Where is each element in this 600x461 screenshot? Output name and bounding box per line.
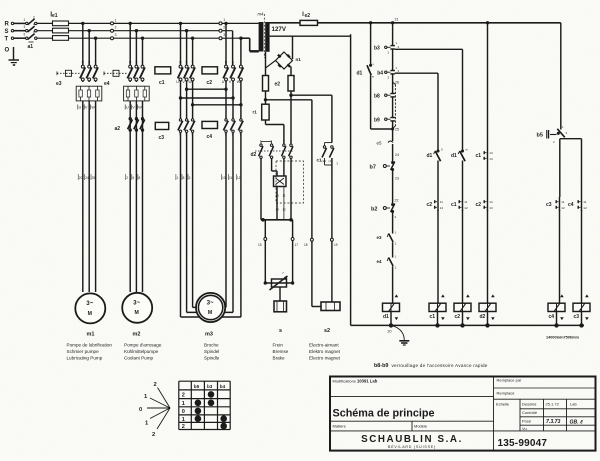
svg-text:750t/min: 750t/min <box>564 336 580 340</box>
svg-text:11: 11 <box>229 176 233 180</box>
svg-text:Frein: Frein <box>273 343 284 348</box>
svg-text:13: 13 <box>489 206 493 210</box>
svg-text:25: 25 <box>395 128 399 132</box>
svg-text:11: 11 <box>440 200 443 204</box>
svg-text:c3: c3 <box>574 314 580 320</box>
svg-text:Lubricating Pump: Lubricating Pump <box>67 356 103 361</box>
svg-text:1: 1 <box>182 401 185 407</box>
svg-text:a1: a1 <box>28 44 34 50</box>
svg-text:15: 15 <box>258 243 262 247</box>
svg-text:10391 Lab: 10391 Lab <box>357 379 378 384</box>
svg-text:Dessiné: Dessiné <box>522 402 537 407</box>
svg-text:14: 14 <box>489 157 493 161</box>
svg-text:5: 5 <box>132 176 134 180</box>
svg-text:Pompe d'arrosage: Pompe d'arrosage <box>124 343 162 348</box>
svg-text:Remplacé: Remplacé <box>497 391 516 396</box>
svg-text:22: 22 <box>395 199 399 203</box>
svg-text:d1: d1 <box>451 153 457 159</box>
svg-text:Schmier pumpe: Schmier pumpe <box>67 349 100 354</box>
svg-text:0: 0 <box>182 409 185 415</box>
svg-text:Spindle: Spindle <box>204 356 220 361</box>
svg-text:d2: d2 <box>480 314 486 320</box>
svg-text:c2: c2 <box>427 202 433 208</box>
svg-text:m2: m2 <box>133 332 141 338</box>
svg-text:S: S <box>5 29 9 35</box>
svg-text:0: 0 <box>139 407 142 413</box>
svg-text:Bremse: Bremse <box>273 349 289 354</box>
svg-text:25: 25 <box>92 176 96 180</box>
svg-text:Modifications: Modifications <box>333 379 356 384</box>
svg-text:23: 23 <box>395 177 399 181</box>
svg-text:T: T <box>141 60 143 64</box>
svg-text:2: 2 <box>115 26 117 30</box>
svg-text:e3: e3 <box>56 81 62 87</box>
svg-text:2: 2 <box>182 392 185 398</box>
svg-text:d1: d1 <box>357 71 363 77</box>
svg-text:R: R <box>5 22 10 28</box>
svg-text:19: 19 <box>334 243 338 247</box>
svg-text:Elektro magnet: Elektro magnet <box>309 349 341 354</box>
svg-text:Coolant Pump: Coolant Pump <box>124 356 154 361</box>
svg-text:Posé: Posé <box>522 418 532 423</box>
svg-text:b2: b2 <box>371 207 377 213</box>
svg-text:BÉVILARD (SUISSE): BÉVILARD (SUISSE) <box>388 444 436 449</box>
svg-text:c2: c2 <box>207 80 213 86</box>
svg-text:2: 2 <box>33 15 35 19</box>
svg-text:Pompe de lubrification: Pompe de lubrification <box>67 343 113 348</box>
svg-text:3: 3 <box>223 33 225 37</box>
svg-text:c3: c3 <box>546 202 552 208</box>
svg-text:s2: s2 <box>324 328 330 334</box>
svg-text:7.3.73: 7.3.73 <box>546 419 561 425</box>
svg-text:verrouillage de l'accessoire A: verrouillage de l'accessoire Avance rapi… <box>392 363 488 368</box>
svg-text:Electro-aimant: Electro-aimant <box>309 343 339 348</box>
svg-text:14: 14 <box>276 208 280 212</box>
svg-text:12: 12 <box>283 208 287 212</box>
svg-text:c1: c1 <box>476 153 482 159</box>
svg-text:b9: b9 <box>374 117 380 123</box>
svg-text:(19: (19 <box>322 159 327 163</box>
svg-text:12: 12 <box>561 206 565 210</box>
svg-text:13: 13 <box>276 194 280 198</box>
svg-text:T: T <box>191 60 193 64</box>
svg-text:20: 20 <box>79 176 83 180</box>
svg-text:21: 21 <box>395 18 399 22</box>
svg-text:e4: e4 <box>104 81 110 87</box>
svg-text:2: 2 <box>182 424 185 430</box>
svg-text:10: 10 <box>222 176 226 180</box>
svg-text:c4: c4 <box>207 134 213 140</box>
svg-text:5: 5 <box>24 33 26 37</box>
svg-text:W: W <box>237 80 241 84</box>
svg-text:b3: b3 <box>374 46 380 52</box>
svg-text:Modèle: Modèle <box>414 424 428 429</box>
svg-text:U: U <box>126 106 129 110</box>
svg-text:Spindel: Spindel <box>204 349 219 354</box>
svg-text:Kühlmittelpumpe: Kühlmittelpumpe <box>124 349 159 354</box>
svg-text:1400t/min: 1400t/min <box>546 336 564 340</box>
svg-text:b4: b4 <box>220 384 226 389</box>
svg-text:18: 18 <box>304 243 308 247</box>
svg-text:W: W <box>138 106 142 110</box>
svg-text:26: 26 <box>395 81 399 85</box>
svg-text:127V: 127V <box>272 26 287 33</box>
svg-text:M: M <box>88 311 92 317</box>
svg-text:12: 12 <box>440 206 444 210</box>
svg-text:6: 6 <box>33 30 35 34</box>
svg-text:c2: c2 <box>476 202 482 208</box>
svg-text:11: 11 <box>561 200 564 204</box>
svg-text:3: 3 <box>115 33 117 37</box>
svg-text:Remplace par: Remplace par <box>497 378 523 383</box>
svg-text:e1: e1 <box>52 13 58 19</box>
svg-text:c3: c3 <box>159 135 165 141</box>
svg-text:c1: c1 <box>159 80 165 86</box>
svg-text:2: 2 <box>154 382 157 388</box>
svg-text:11: 11 <box>464 200 467 204</box>
svg-text:b8-b9: b8-b9 <box>374 363 388 369</box>
svg-text:d2: d2 <box>251 152 257 158</box>
svg-text:U: U <box>79 106 82 110</box>
svg-text:2: 2 <box>126 176 128 180</box>
svg-text:Lab: Lab <box>570 402 577 407</box>
svg-text:12: 12 <box>583 206 587 210</box>
svg-text:T: T <box>240 60 242 64</box>
svg-text:d1: d1 <box>427 153 433 159</box>
svg-text:c2: c2 <box>455 314 461 320</box>
svg-text:3: 3 <box>24 25 26 29</box>
svg-text:11: 11 <box>283 194 286 198</box>
svg-text:24: 24 <box>85 176 89 180</box>
svg-text:c1: c1 <box>451 202 457 208</box>
svg-text:3~: 3~ <box>207 299 214 306</box>
svg-text:Brake: Brake <box>273 356 285 361</box>
svg-text:U: U <box>176 80 179 84</box>
svg-text:m3: m3 <box>205 332 213 338</box>
svg-text:T: T <box>94 60 96 64</box>
svg-text:b5: b5 <box>194 384 200 389</box>
svg-text:GB. ℓ: GB. ℓ <box>570 420 584 426</box>
svg-text:Broche: Broche <box>204 343 219 348</box>
svg-text:Schéma de principe: Schéma de principe <box>333 408 435 420</box>
svg-text:1: 1 <box>115 18 117 22</box>
svg-text:n1: n1 <box>296 57 302 62</box>
svg-text:Matière: Matière <box>333 424 347 429</box>
svg-text:M: M <box>135 310 139 316</box>
svg-text:c4: c4 <box>568 202 574 208</box>
svg-text:Contrôlé: Contrôlé <box>522 410 538 415</box>
svg-text:135-99047: 135-99047 <box>498 438 548 449</box>
svg-text:b5: b5 <box>537 133 543 139</box>
svg-text:W: W <box>91 106 95 110</box>
svg-text:1: 1 <box>177 176 179 180</box>
svg-text:W: W <box>188 80 192 84</box>
svg-text:e4: e4 <box>377 259 383 264</box>
svg-text:Electro magnet: Electro magnet <box>309 356 341 361</box>
svg-text:r1: r1 <box>253 110 258 115</box>
svg-text:12: 12 <box>237 176 241 180</box>
svg-text:11: 11 <box>583 200 586 204</box>
svg-text:13: 13 <box>489 151 493 155</box>
svg-text:e3: e3 <box>377 235 383 240</box>
svg-text:b3: b3 <box>207 384 213 389</box>
svg-text:b4: b4 <box>377 70 383 76</box>
svg-text:s: s <box>279 328 282 334</box>
svg-text:O: O <box>5 48 10 54</box>
svg-text:8: 8 <box>183 176 185 180</box>
svg-text:e2: e2 <box>275 82 281 88</box>
svg-text:2: 2 <box>152 432 155 438</box>
svg-text:U: U <box>222 80 225 84</box>
svg-text:12: 12 <box>464 206 468 210</box>
svg-text:Echelle: Echelle <box>496 402 510 407</box>
svg-text:M: M <box>208 310 212 316</box>
svg-text:1: 1 <box>223 18 225 22</box>
svg-text:e2: e2 <box>305 13 311 19</box>
svg-text:m1: m1 <box>87 332 95 338</box>
svg-text:c4: c4 <box>549 314 555 320</box>
svg-text:d1: d1 <box>383 314 389 320</box>
svg-text:8: 8 <box>139 176 141 180</box>
svg-text:c1: c1 <box>430 314 436 320</box>
svg-text:25.1.72: 25.1.72 <box>546 402 560 407</box>
svg-text:3~: 3~ <box>133 300 140 307</box>
svg-text:T: T <box>5 36 9 42</box>
svg-text:3~: 3~ <box>86 300 93 307</box>
svg-text:b8: b8 <box>374 93 380 99</box>
svg-text:4: 4 <box>33 23 35 27</box>
svg-text:b7: b7 <box>370 165 376 171</box>
svg-text:14: 14 <box>489 200 493 204</box>
svg-text:20: 20 <box>388 330 392 334</box>
svg-text:24: 24 <box>395 153 399 157</box>
svg-text:Vu: Vu <box>522 426 527 431</box>
svg-text:m4: m4 <box>258 12 264 17</box>
svg-text:1: 1 <box>182 417 185 423</box>
svg-text:a2: a2 <box>115 126 121 132</box>
svg-text:1: 1 <box>24 18 26 22</box>
svg-text:2: 2 <box>223 25 225 29</box>
svg-text:e5: e5 <box>377 141 383 146</box>
svg-text:17: 17 <box>295 243 299 247</box>
svg-text:3: 3 <box>189 176 191 180</box>
svg-text:SCHAUBLIN S.A.: SCHAUBLIN S.A. <box>361 434 463 445</box>
